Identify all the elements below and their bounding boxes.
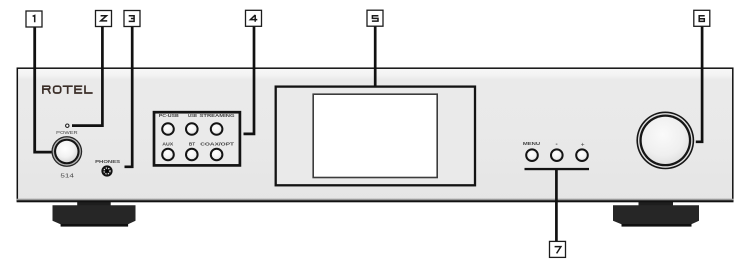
- leader line 6: [696, 26, 702, 142]
- minus button: [551, 149, 563, 161]
- ROTEL logo: [43, 86, 92, 93]
- left foot: [53, 201, 136, 227]
- power LED: [66, 124, 69, 127]
- callout 6: [694, 10, 710, 26]
- svg-text:-: -: [556, 141, 558, 148]
- callout 1: [26, 11, 42, 27]
- leader line 4: [244, 26, 255, 134]
- callout 7: [550, 241, 566, 257]
- callout 4: [246, 10, 262, 26]
- svg-text:POWER: POWER: [56, 130, 77, 135]
- MENU button: [526, 149, 538, 161]
- leader line 1: [35, 27, 52, 152]
- svg-text:PC-USB: PC-USB: [159, 113, 179, 118]
- source button panel: [154, 112, 240, 165]
- svg-text:+: +: [581, 141, 585, 148]
- leader line 7: [555, 169, 558, 241]
- callout 5: [367, 10, 383, 26]
- svg-text:PHONES: PHONES: [95, 159, 120, 164]
- callout 2: [96, 11, 112, 27]
- svg-text:STREAMING: STREAMING: [200, 113, 236, 118]
- USB button: [186, 123, 198, 135]
- svg-text:USB: USB: [188, 113, 197, 118]
- display bezel: [276, 87, 475, 186]
- svg-text:BT: BT: [189, 141, 196, 146]
- svg-text:AUX: AUX: [162, 141, 173, 146]
- leader line 3: [125, 27, 133, 167]
- leader line 2: [72, 27, 102, 126]
- svg-text:MENU: MENU: [523, 141, 541, 146]
- PC-USB button: [162, 123, 174, 135]
- AUX button: [162, 149, 174, 161]
- COAX/OPT button: [211, 149, 223, 161]
- panel bottom edge: [17, 199, 734, 201]
- BT button: [186, 149, 198, 161]
- front panel: [17, 68, 733, 200]
- callout 3: [124, 11, 140, 27]
- volume knob: [636, 111, 694, 169]
- STREAMING button: [211, 123, 223, 135]
- phones jack: [101, 165, 112, 176]
- menu underline: [525, 168, 590, 170]
- svg-text:COAX/OPT: COAX/OPT: [200, 141, 234, 146]
- right foot: [613, 201, 699, 227]
- display screen: [313, 94, 437, 177]
- plus button: [576, 149, 588, 161]
- power button: [51, 136, 82, 167]
- leader line 5: [374, 26, 377, 86]
- svg-text:514: 514: [60, 173, 74, 179]
